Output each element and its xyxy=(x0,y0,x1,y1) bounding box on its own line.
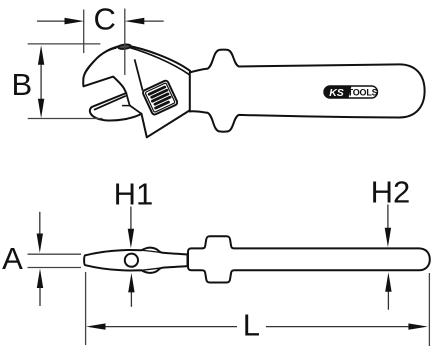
wrench head outline xyxy=(83,45,190,137)
A bottom arrow xyxy=(39,286,41,306)
peak ellipse (jaw slot end) xyxy=(118,44,131,50)
bottom view handle xyxy=(188,236,430,282)
L extension line left xyxy=(85,272,87,345)
L dimension line right xyxy=(266,326,410,328)
svg-text:A: A xyxy=(2,241,23,276)
C extension line left xyxy=(83,10,85,54)
B extension line bottom xyxy=(28,118,103,120)
jaw slide tick xyxy=(122,105,131,107)
C extension line right xyxy=(124,9,126,76)
movable jaw chamfer line xyxy=(94,96,126,110)
H2 top arrow xyxy=(387,205,389,230)
knurl lens under-edge bottom xyxy=(142,268,163,271)
svg-text:H1: H1 xyxy=(114,177,154,212)
A top arrow xyxy=(39,212,41,235)
KS TOOLS logo xyxy=(324,86,378,99)
svg-text:B: B xyxy=(11,67,32,102)
dimension C right arrow xyxy=(143,20,164,22)
channel edge line xyxy=(135,59,143,90)
movable jaw side edge xyxy=(126,93,141,114)
svg-text:C: C xyxy=(94,2,116,37)
inner top chamfer line left xyxy=(87,48,117,71)
inner top chamfer line right xyxy=(129,47,190,75)
dimension B arrow line xyxy=(40,64,42,100)
A extension line bottom xyxy=(28,267,82,269)
svg-text:KS: KS xyxy=(329,87,344,99)
H1 bottom arrow xyxy=(130,290,132,307)
dimension C left arrow xyxy=(37,20,66,22)
knurl lens under-edge top xyxy=(142,250,163,253)
L dimension line left xyxy=(104,326,237,328)
B extension line top xyxy=(28,43,101,45)
svg-text:H2: H2 xyxy=(371,175,411,210)
svg-text:TOOLS: TOOLS xyxy=(348,87,378,97)
L extension line right xyxy=(428,273,430,346)
H1 top arrow xyxy=(130,207,132,231)
worm screw axis circle xyxy=(125,254,138,267)
blade head outline xyxy=(84,248,187,273)
insulated handle sleeve xyxy=(190,50,425,132)
svg-text:L: L xyxy=(243,308,260,343)
H2 bottom arrow xyxy=(387,290,389,310)
A extension line top xyxy=(28,253,82,255)
worm screw knurl xyxy=(142,80,178,116)
